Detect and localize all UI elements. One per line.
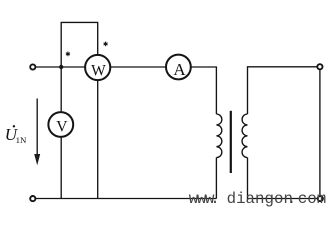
wire TL terminal to junction <box>36 66 62 68</box>
terminal BR <box>318 196 323 201</box>
watermark www.diangon.com <box>189 190 326 208</box>
wattmeter W <box>85 55 110 80</box>
node junction <box>59 65 63 69</box>
svg-text:V: V <box>56 118 68 135</box>
terminal TR <box>317 64 322 69</box>
asterisk polarity mark (current coil) <box>66 52 70 57</box>
label U1N <box>5 125 27 145</box>
terminal TL <box>30 64 35 69</box>
wire V bottom to bottom wire <box>60 138 62 199</box>
svg-text:A: A <box>173 60 186 79</box>
transformer secondary winding <box>242 114 247 158</box>
voltmeter V <box>48 112 73 137</box>
wire junction down to V <box>60 67 62 111</box>
transformer primary winding <box>216 114 221 158</box>
ammeter A <box>166 55 191 80</box>
svg-text:com: com <box>298 190 326 208</box>
wire W right to A left <box>111 66 165 68</box>
svg-text:1N: 1N <box>16 135 27 145</box>
wire A right then down to primary <box>192 67 217 114</box>
wire junction to W <box>61 66 85 68</box>
arrow U1N reference direction <box>34 99 40 166</box>
svg-text:diangon: diangon <box>227 190 293 208</box>
wire voltage-coil loop (junction up, across, down to W top) <box>61 22 97 67</box>
transformer core <box>230 111 232 173</box>
svg-text:.: . <box>210 190 219 208</box>
wire W bottom to bottom wire <box>97 81 99 199</box>
terminal BL <box>30 196 35 201</box>
wire secondary bottom <box>248 158 318 199</box>
asterisk polarity mark (voltage coil) <box>104 42 108 47</box>
wire secondary top <box>248 67 317 114</box>
svg-text:.: . <box>287 190 296 208</box>
svg-text:W: W <box>91 63 106 80</box>
wire TR terminal down to BR terminal <box>319 70 321 195</box>
wire primary bottom down <box>215 158 217 199</box>
wire bottom left circuit <box>36 198 217 200</box>
